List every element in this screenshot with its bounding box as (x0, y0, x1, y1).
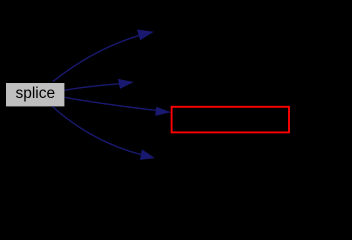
edge splice->node2 (upper middle arrow) (65, 79, 134, 90)
edge splice->node1 (top arrow) (53, 29, 154, 81)
svg-text:splice: splice (15, 85, 55, 102)
edge splice->truncated-node (arrow into red box) (65, 97, 172, 116)
truncated node (red box) (172, 107, 289, 133)
node splice (grey box) (6, 83, 65, 107)
edge splice->node4 (bottom arrow) (53, 107, 155, 160)
